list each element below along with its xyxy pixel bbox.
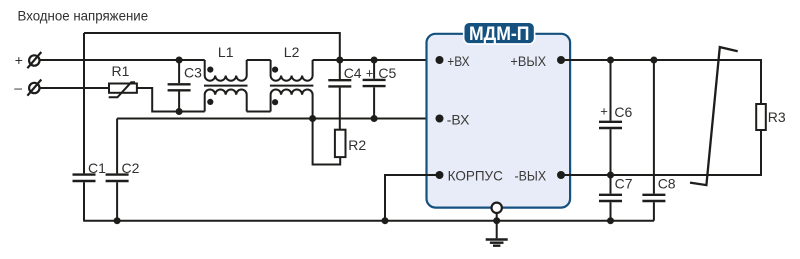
inductor L1 (common-mode choke) <box>204 60 248 112</box>
capacitor C4 <box>328 60 351 130</box>
resistor R3 <box>756 104 766 130</box>
capacitor C6 (electrolytic) <box>599 60 622 175</box>
pin КОРПУС <box>436 171 444 179</box>
wire top bypass (C1 branch to +line node) <box>84 33 340 60</box>
svg-text:C1: C1 <box>88 160 106 176</box>
junction КОРПУС rail <box>382 217 389 224</box>
resistor R2 <box>313 119 346 165</box>
svg-text:C8: C8 <box>658 175 676 191</box>
svg-text:R1: R1 <box>112 63 130 79</box>
svg-text:C7: C7 <box>615 175 633 191</box>
ground <box>486 221 508 246</box>
svg-text:C3: C3 <box>184 65 202 81</box>
junction C7 bottom <box>607 217 614 224</box>
junction C3 bottom <box>176 108 183 115</box>
capacitor C3 <box>168 60 191 112</box>
svg-text:-ВХ: -ВХ <box>447 112 470 128</box>
capacitor C1 <box>73 33 96 221</box>
wire case pin stem <box>496 213 498 221</box>
svg-text:+: + <box>366 66 374 81</box>
capacitor C2 <box>106 119 129 221</box>
junction C6 top <box>607 57 614 64</box>
inductor L2 (common-mode choke) <box>270 60 314 119</box>
junction C4 top <box>336 57 343 64</box>
pin +ВЫХ <box>557 56 565 64</box>
svg-text:+: + <box>600 104 608 119</box>
svg-text:L2: L2 <box>284 44 300 60</box>
junction case rail <box>493 217 500 224</box>
svg-text:R2: R2 <box>348 137 366 153</box>
svg-text:C2: C2 <box>122 160 140 176</box>
svg-text:R3: R3 <box>768 109 786 125</box>
junction C6 bottom <box>607 172 614 179</box>
junction C2 bottom <box>114 217 121 224</box>
capacitor C5 (electrolytic) <box>363 60 386 119</box>
svg-text:КОРПУС: КОРПУС <box>448 167 503 183</box>
module U1 МДМ-П box <box>427 22 571 207</box>
wire bottom ground rail <box>83 220 654 222</box>
capacitor C8 <box>642 60 665 221</box>
pin -ВХ <box>436 115 444 123</box>
terminal + (input plus) <box>15 52 42 68</box>
svg-text:C5: C5 <box>378 65 396 81</box>
junction R2 branch on -ВХ line <box>309 115 316 122</box>
resistor R1 (varistor) <box>109 82 137 97</box>
capacitor C7 <box>599 175 622 221</box>
pin +ВХ <box>436 56 444 64</box>
wire lower bridge between chokes <box>247 111 271 113</box>
junction C5 top <box>371 57 378 64</box>
wire КОРПУС to ground rail <box>385 175 440 221</box>
svg-text:-ВЫХ: -ВЫХ <box>515 167 547 183</box>
wire + line to +ВХ pin <box>313 59 440 61</box>
junction C5 bottom <box>371 115 378 122</box>
wire − line from terminal to R1 <box>39 87 109 89</box>
wire − line R1 to L1 lower entry <box>137 88 205 112</box>
svg-text:Входное напряжение: Входное напряжение <box>18 8 149 24</box>
svg-text:+ВХ: +ВХ <box>447 53 470 69</box>
junction C8 top <box>650 57 657 64</box>
wire + line left segment <box>39 59 204 61</box>
pin -ВЫХ <box>557 171 565 179</box>
wire + line between chokes <box>247 59 271 61</box>
wire output + line and R3 loop top <box>561 60 761 104</box>
svg-text:L1: L1 <box>218 44 234 60</box>
svg-text:+ВЫХ: +ВЫХ <box>510 53 546 69</box>
svg-text:–: – <box>14 80 22 96</box>
wire -ВХ line (C2 node to -ВХ pin) <box>117 118 439 120</box>
wire output − line and R3 loop bottom <box>561 130 761 175</box>
svg-text:МДМ-П: МДМ-П <box>469 24 530 45</box>
pin case (open circle at module bottom) <box>492 203 502 213</box>
svg-text:+: + <box>15 52 23 68</box>
terminal − (input minus) <box>14 80 41 96</box>
cable break symbol <box>690 47 738 185</box>
junction C3 top <box>176 57 183 64</box>
svg-text:C4: C4 <box>344 65 362 81</box>
svg-text:C6: C6 <box>614 104 632 120</box>
